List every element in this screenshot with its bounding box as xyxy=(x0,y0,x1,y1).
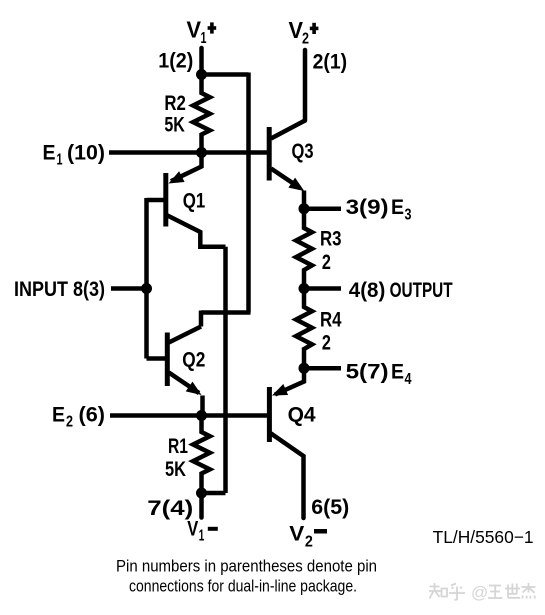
wire R1-bottom jog xyxy=(202,491,226,496)
svg-text:E: E xyxy=(52,404,65,427)
wire V2+ supply stub xyxy=(303,50,308,121)
wire Q2 collector jog vertical xyxy=(199,311,204,327)
wire Q2 collector jog horizontal xyxy=(201,310,251,315)
svg-text:E: E xyxy=(43,142,56,165)
svg-text:E: E xyxy=(391,361,404,384)
svg-text:OUTPUT: OUTPUT xyxy=(390,279,453,302)
svg-text:2: 2 xyxy=(322,332,331,355)
svg-text:4: 4 xyxy=(405,371,412,388)
svg-text:1: 1 xyxy=(201,30,207,47)
wire node1 to right rail xyxy=(202,72,249,77)
wire Q1 collector rail down xyxy=(223,247,228,493)
wire V1- supply stub xyxy=(199,493,204,518)
wire E4 stub xyxy=(304,366,341,371)
label V2- xyxy=(289,523,327,551)
svg-text:Q4: Q4 xyxy=(288,404,316,427)
svg-text:2: 2 xyxy=(305,534,313,551)
junction node E1/R2 xyxy=(196,147,207,158)
wire INPUT stub xyxy=(111,286,148,291)
node label E1 (10) xyxy=(43,142,106,169)
svg-text:Q2: Q2 xyxy=(182,349,205,372)
junction node 7(4) xyxy=(196,488,207,499)
transistor Q4 xyxy=(269,368,304,518)
resistor R3 xyxy=(296,209,312,289)
svg-text:R4: R4 xyxy=(320,309,342,332)
wire E3 stub xyxy=(304,206,341,211)
svg-text:R3: R3 xyxy=(320,228,342,251)
label V2+ xyxy=(289,17,319,48)
svg-text:1: 1 xyxy=(199,528,205,545)
node label 3(9) E3 xyxy=(346,196,412,224)
svg-text:TL/H/5560−1: TL/H/5560−1 xyxy=(433,527,534,547)
svg-text:connections for dual-in-line p: connections for dual-in-line package. xyxy=(129,578,357,596)
svg-text:E: E xyxy=(391,196,404,219)
node label 5(7) E4 xyxy=(346,361,412,389)
svg-text:2: 2 xyxy=(322,251,331,274)
svg-text:V: V xyxy=(187,518,198,541)
wire E1 line xyxy=(109,150,268,155)
svg-text:(10): (10) xyxy=(67,142,105,165)
svg-text:@: @ xyxy=(471,583,488,602)
label V1+ xyxy=(187,17,217,48)
svg-text:3: 3 xyxy=(405,207,412,224)
node label 4(8) OUTPUT xyxy=(349,279,453,302)
svg-text:4(8): 4(8) xyxy=(349,279,386,302)
svg-text:5K: 5K xyxy=(164,114,185,137)
watermark zhihu xyxy=(429,583,536,600)
junction node E3 xyxy=(299,203,310,214)
svg-text:5(7): 5(7) xyxy=(346,361,389,384)
svg-text:3(9): 3(9) xyxy=(346,196,389,219)
wire right rail down (node1 to Q2 collector) xyxy=(246,73,251,313)
wire OUTPUT stub xyxy=(304,286,341,291)
junction node E2 xyxy=(196,410,207,421)
svg-text:R1: R1 xyxy=(168,435,188,458)
junction node E4 xyxy=(299,363,310,374)
node label E2 (6) xyxy=(52,404,105,431)
svg-text:2: 2 xyxy=(66,414,73,431)
wire base rail Q1-Q2 xyxy=(144,198,149,359)
svg-text:2: 2 xyxy=(302,31,309,48)
svg-text:1: 1 xyxy=(57,152,63,169)
junction node 1(2) xyxy=(196,69,207,80)
transistor Q1 xyxy=(147,153,226,247)
resistor R4 xyxy=(296,289,312,369)
svg-text:5K: 5K xyxy=(165,458,186,481)
svg-text:(6): (6) xyxy=(79,404,106,427)
label V1- xyxy=(187,518,218,545)
svg-text:V: V xyxy=(289,523,304,546)
wire V1+ supply stub xyxy=(199,48,204,75)
svg-text:1(2): 1(2) xyxy=(158,50,193,73)
wire E2 line xyxy=(110,413,268,418)
svg-text:Pin numbers in parentheses den: Pin numbers in parentheses denote pin xyxy=(116,558,377,576)
transistor Q2 xyxy=(147,327,203,416)
transistor Q3 xyxy=(269,121,305,210)
svg-text:2(1): 2(1) xyxy=(313,51,348,74)
junction node OUTPUT xyxy=(299,283,310,294)
svg-text:Q1: Q1 xyxy=(183,190,206,213)
svg-text:Q3: Q3 xyxy=(292,140,314,163)
svg-text:R2: R2 xyxy=(164,92,186,115)
svg-text:V: V xyxy=(187,17,202,43)
svg-text:INPUT 8(3): INPUT 8(3) xyxy=(14,278,105,301)
svg-text:6(5): 6(5) xyxy=(311,496,349,519)
resistor R2 xyxy=(193,75,210,153)
junction node INPUT xyxy=(141,283,152,294)
resistor R1 xyxy=(193,416,210,494)
